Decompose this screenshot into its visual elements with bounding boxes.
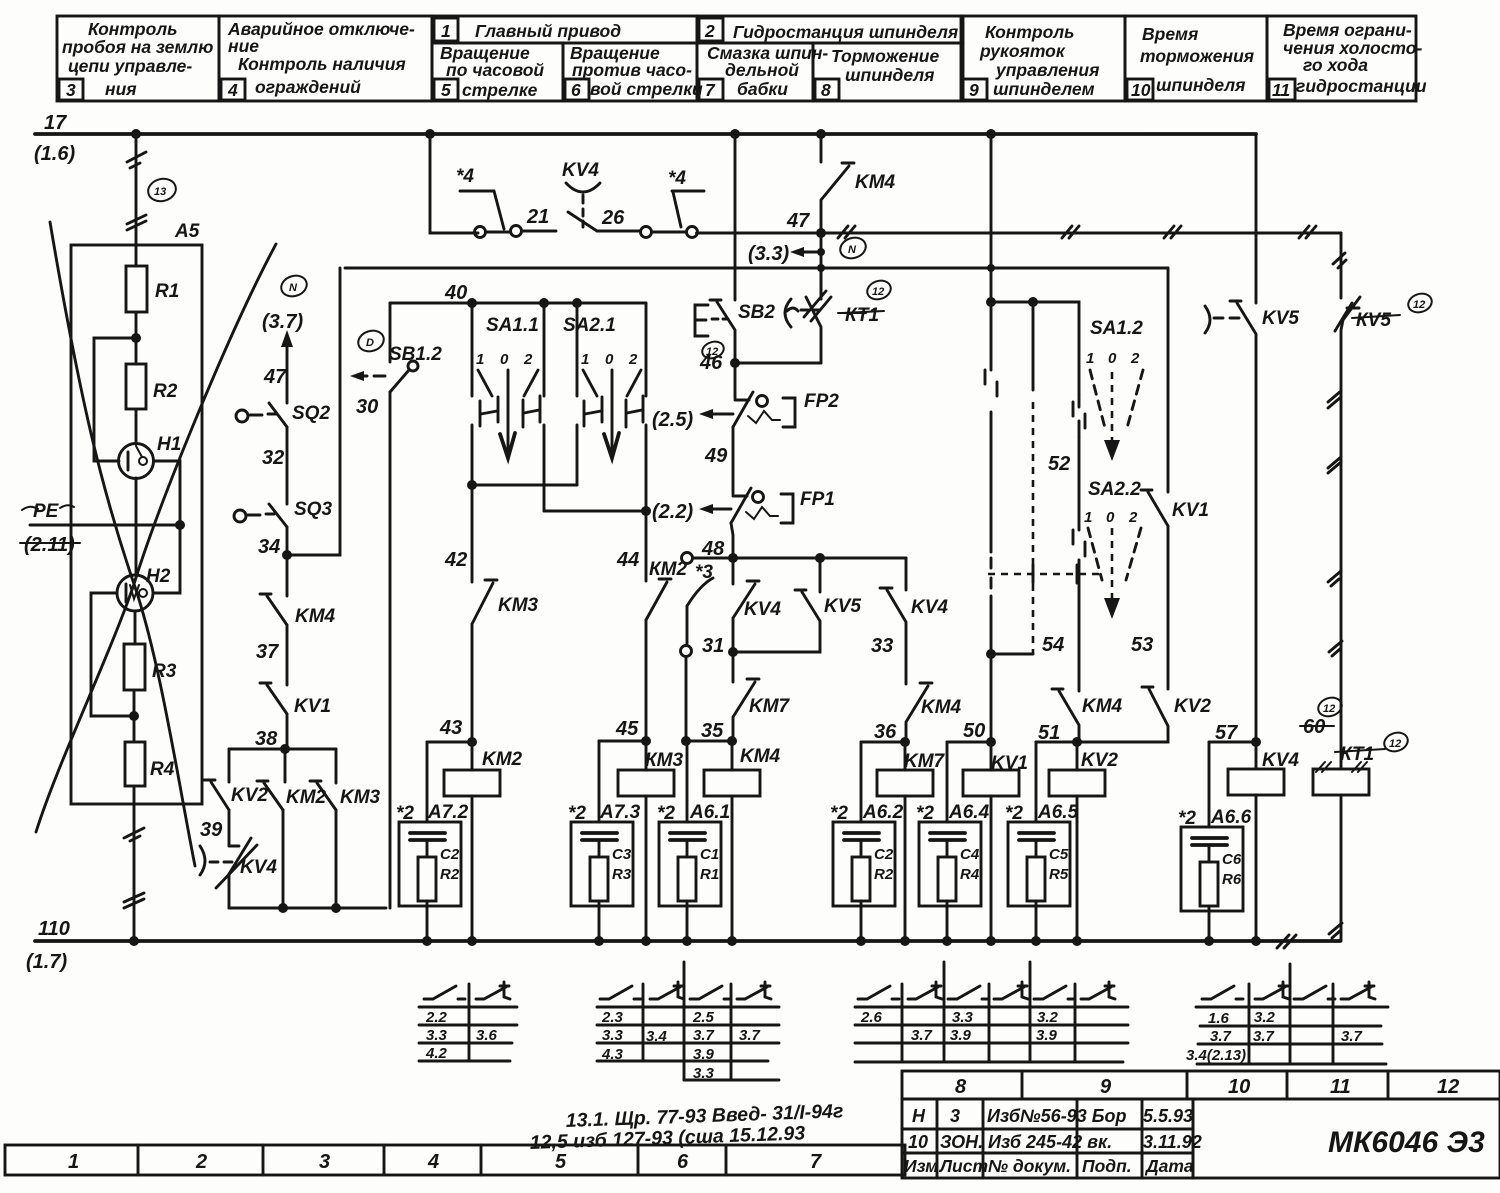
- wire R3 to node: [133, 690, 136, 742]
- circled mark N upper: [279, 272, 310, 299]
- node 36 junction: [900, 737, 910, 747]
- wire: PE / (2.11) horizontal: [30, 524, 180, 527]
- wire 49: [732, 427, 735, 494]
- svg-text:шпинделя: шпинделя: [1156, 75, 1245, 95]
- svg-text:30: 30: [356, 396, 378, 418]
- svg-text:R3: R3: [612, 866, 632, 883]
- svg-text:А6.5: А6.5: [1037, 802, 1079, 823]
- svg-text:C5: C5: [1049, 846, 1069, 863]
- svg-text:*4: *4: [456, 166, 474, 187]
- svg-text:3.7: 3.7: [911, 1027, 933, 1044]
- svg-text:2.3: 2.3: [601, 1009, 624, 1026]
- svg-text:Лист: Лист: [938, 1156, 988, 1176]
- svg-text:12: 12: [872, 286, 884, 298]
- relay coil KV2: [1049, 770, 1105, 796]
- svg-text:2.2: 2.2: [425, 1009, 448, 1026]
- svg-text:KV1: KV1: [1172, 500, 1209, 521]
- contact usage table 1 (KM2): [419, 982, 517, 1062]
- svg-text:3.7: 3.7: [1253, 1028, 1275, 1045]
- contact KM4 (from bus 17): [816, 129, 826, 139]
- svg-text:3.3: 3.3: [693, 1065, 715, 1082]
- wire: A5 branch from bus 17: [135, 134, 138, 266]
- svg-text:KM4: KM4: [921, 697, 962, 718]
- contact usage table 3 (KM7 / KV1 / KV2): [855, 962, 1128, 1062]
- svg-text:10: 10: [908, 1132, 928, 1152]
- header box 10: Время торможения шпинделя: [1125, 16, 1267, 101]
- svg-text:FP2: FP2: [804, 391, 839, 412]
- svg-text:R4: R4: [960, 866, 980, 883]
- break mark on bus 110: [1277, 935, 1296, 948]
- contact KM3 (branch 42): [472, 580, 497, 624]
- wire R1 to R2: [135, 312, 138, 364]
- svg-text:2: 2: [1128, 509, 1138, 526]
- svg-text:2: 2: [195, 1151, 207, 1173]
- svg-text:А6.6: А6.6: [1210, 807, 1252, 828]
- svg-text:5: 5: [555, 1151, 567, 1173]
- svg-text:9: 9: [1100, 1076, 1112, 1098]
- relay coil KM4: [704, 770, 760, 796]
- svg-text:12: 12: [1389, 738, 1401, 750]
- svg-text:R6: R6: [1222, 871, 1242, 888]
- svg-text:KV5: KV5: [1262, 308, 1299, 329]
- contact KV2 (39 loop): [204, 780, 229, 810]
- rail x=991 with contact break: [990, 302, 993, 654]
- contact KV5 (branch 48-31): [819, 558, 822, 592]
- svg-text:0: 0: [1108, 350, 1117, 367]
- wire to node 45: [645, 620, 648, 741]
- contact KV4 NC (39 loop) with actuator: [200, 838, 257, 888]
- svg-text:2: 2: [704, 21, 715, 41]
- thermal contact FP2: [733, 363, 795, 427]
- break marks on far right rail: [1328, 391, 1341, 408]
- svg-text:Изб№56-93 Бор: Изб№56-93 Бор: [987, 1106, 1126, 1126]
- node 31 junction: [728, 647, 738, 657]
- svg-text:KM7: KM7: [749, 696, 791, 717]
- node 48 junction: [728, 553, 738, 563]
- wire to node 38: [286, 714, 289, 749]
- svg-text:52: 52: [1048, 453, 1070, 475]
- switch section SA2.1: [563, 303, 646, 511]
- contact KV2 (branch 53-51): [1077, 687, 1168, 742]
- contact KV1 (right): [1141, 490, 1168, 526]
- svg-text:3.4(2.13): 3.4(2.13): [1186, 1047, 1246, 1064]
- header box 11: Время ограничения холостого хода гидростанции: [1267, 16, 1416, 101]
- node 47 junction: [816, 228, 826, 238]
- svg-text:C2: C2: [874, 846, 894, 863]
- svg-text:KM3: KM3: [498, 595, 539, 616]
- svg-text:9: 9: [969, 80, 979, 100]
- svg-text:Время ограни-: Время ограни-: [1283, 20, 1412, 40]
- circled mark above 46: [700, 339, 726, 361]
- wire R4 to bus 110: [133, 786, 136, 941]
- limit switch SQ3: [234, 504, 287, 555]
- svg-text:SQ2: SQ2: [292, 403, 330, 424]
- rail far right from line 47: [1340, 233, 1343, 298]
- wire: drop from bus to SB2: [734, 134, 737, 300]
- svg-text:34: 34: [258, 536, 280, 558]
- rail from sub-bus to KV1 contact: [1167, 268, 1170, 492]
- header function-zone table: [57, 16, 1427, 101]
- node 50 junction: [986, 737, 996, 747]
- node 51 junction: [1072, 737, 1082, 747]
- wire: SA1.1 right to SA2.1 right link: [544, 510, 646, 513]
- svg-text:SA2.2: SA2.2: [1088, 479, 1141, 500]
- wire H1 to H2: [135, 478, 138, 575]
- node: junction below R1: [131, 333, 141, 343]
- wire 42 down: [471, 485, 474, 582]
- svg-text:Подп.: Подп.: [1082, 1156, 1132, 1176]
- wire FP1 to node 48: [731, 523, 733, 558]
- svg-text:R5: R5: [1049, 866, 1069, 883]
- cross-out stroke 1 over A5: [50, 222, 195, 866]
- contact KM2 (branch 44): [646, 579, 671, 620]
- svg-text:N: N: [848, 244, 857, 256]
- contact KM3 (39 loop): [310, 781, 336, 810]
- rail x=1033 dashed lower: [1032, 302, 1035, 390]
- wire *3 to node 35: [686, 740, 732, 743]
- svg-text:KV4: KV4: [1262, 750, 1299, 771]
- svg-text:по часовой: по часовой: [446, 60, 544, 80]
- wire: 48 rail: [694, 557, 906, 560]
- relay coil KV1: [963, 770, 1019, 796]
- svg-text:ограждений: ограждений: [255, 77, 361, 97]
- svg-text:(2.2): (2.2): [652, 501, 693, 523]
- svg-text:1: 1: [68, 1151, 79, 1173]
- svg-text:бабки: бабки: [737, 79, 788, 99]
- svg-text:1: 1: [1084, 509, 1092, 526]
- contact KV4 (branch 33): [905, 558, 908, 590]
- contact KM4 (branch 33-36): [906, 683, 932, 742]
- rail 52 (x=1079) continues: [1078, 437, 1081, 691]
- circled mark above KT1: [865, 278, 893, 303]
- svg-text:35: 35: [701, 720, 724, 742]
- svg-text:42: 42: [444, 549, 467, 571]
- wire: node 34 to riser: [287, 268, 340, 555]
- svg-text:3: 3: [66, 80, 76, 100]
- bottom zone strip 1-7: [5, 1145, 905, 1175]
- svg-text:KV4: KV4: [911, 597, 948, 618]
- svg-text:R2: R2: [440, 866, 460, 883]
- svg-text:FP1: FP1: [800, 489, 835, 510]
- header box: 1 Главный привод: [432, 16, 697, 43]
- SB2 return arc symbol: [785, 299, 819, 327]
- contact KM2 (39 loop): [257, 781, 283, 810]
- wire: bus 17 right corner down: [1255, 134, 1258, 303]
- svg-text:PE: PE: [33, 501, 60, 522]
- cross-out stroke 2 over A5: [36, 244, 276, 832]
- svg-text:4: 4: [427, 1151, 439, 1173]
- svg-text:40: 40: [444, 282, 467, 304]
- svg-text:44: 44: [616, 549, 639, 571]
- svg-text:R1: R1: [155, 281, 179, 302]
- bus 17 (top supply line): [35, 132, 1256, 136]
- wire H2 to R3: [134, 611, 137, 644]
- revision table frame: [902, 1099, 1193, 1178]
- svg-text:C4: C4: [960, 846, 980, 863]
- wire node 54 to node 50: [990, 654, 993, 742]
- wire: left bypass of R2 to H1: [94, 338, 136, 461]
- break marks on line 47: [838, 226, 855, 238]
- resistor R4: [125, 742, 145, 786]
- long rail y=268 (sub-bus): [345, 267, 1168, 270]
- switch section SA2.2: [1084, 479, 1141, 619]
- svg-text:Гидростанция шпинделя: Гидростанция шпинделя: [733, 22, 958, 42]
- svg-text:12: 12: [1323, 703, 1335, 715]
- svg-text:3.7: 3.7: [1210, 1028, 1232, 1045]
- wire: H1 right to PE node: [154, 461, 181, 525]
- node: junction PE line / H lamps: [175, 520, 185, 530]
- wire 47 down across sub-bus: [820, 233, 823, 299]
- svg-text:47: 47: [786, 210, 810, 232]
- svg-text:стрелке: стрелке: [462, 80, 538, 100]
- wire: SA1.1 left to SA2.1 left link: [472, 484, 577, 487]
- svg-text:4: 4: [227, 80, 238, 100]
- contact KV4 (chain 21-26) with actuator: [522, 230, 556, 233]
- contact KV5 (right rail) with actuator: [1205, 301, 1256, 742]
- svg-text:SA1.1: SA1.1: [486, 315, 539, 336]
- node 34 junction: [282, 550, 292, 560]
- svg-text:31: 31: [702, 635, 724, 657]
- contact KV1 (SQ chain): [260, 683, 287, 714]
- svg-text:А6.2: А6.2: [862, 802, 904, 823]
- svg-text:KM4: KM4: [295, 606, 336, 627]
- svg-text:шпинделем: шпинделем: [993, 79, 1095, 99]
- wire: node 34 down: [286, 555, 289, 596]
- svg-text:*4: *4: [668, 168, 686, 189]
- wire 26 to second *4 link: [652, 231, 686, 234]
- svg-text:3.7: 3.7: [739, 1027, 761, 1044]
- svg-text:C3: C3: [612, 846, 632, 863]
- svg-text:вой стрелки: вой стрелки: [590, 79, 703, 99]
- contact KV5 crossed out (far right): [1335, 297, 1360, 769]
- svg-text:(3.7): (3.7): [262, 311, 303, 333]
- switch section SA1.2: [1086, 318, 1143, 461]
- svg-text:KV4: KV4: [744, 599, 781, 620]
- svg-text:3.3: 3.3: [426, 1027, 448, 1044]
- svg-text:21: 21: [526, 206, 549, 228]
- wire: drop from bus 17 at x=991: [990, 134, 993, 302]
- svg-text:32: 32: [262, 447, 284, 469]
- svg-text:2.5: 2.5: [692, 1009, 715, 1026]
- svg-text:КV5: КV5: [1356, 310, 1391, 331]
- circled mark D (SB1.2): [356, 327, 387, 354]
- svg-text:37: 37: [256, 641, 279, 663]
- svg-text:7: 7: [810, 1151, 822, 1173]
- svg-text:цепи управле-: цепи управле-: [68, 56, 192, 76]
- svg-text:7: 7: [705, 80, 716, 100]
- svg-text:8: 8: [955, 1076, 967, 1098]
- svg-text:А7.2: А7.2: [427, 802, 469, 823]
- svg-text:Изм: Изм: [904, 1156, 938, 1176]
- svg-text:дельной: дельной: [725, 60, 799, 80]
- svg-text:C2: C2: [440, 846, 460, 863]
- handwritten revision notes: [529, 1100, 843, 1154]
- svg-text:KM4: KM4: [1082, 696, 1123, 717]
- svg-text:1.6: 1.6: [1208, 1010, 1230, 1027]
- header box: Контроль пробоя: [57, 16, 219, 101]
- svg-text:A5: A5: [174, 221, 200, 242]
- svg-text:3.7: 3.7: [1341, 1028, 1363, 1045]
- svg-text:2: 2: [628, 351, 638, 368]
- svg-text:Изб 245-42 вк.: Изб 245-42 вк.: [988, 1132, 1112, 1152]
- svg-text:6: 6: [677, 1151, 689, 1173]
- wire: arrow up to sheet 3.7: [286, 336, 289, 403]
- circled mark right of KV5: [1406, 291, 1434, 316]
- svg-text:3.3: 3.3: [602, 1027, 624, 1044]
- contact usage table 2 (KM3 / KM4): [597, 962, 779, 1082]
- svg-text:KM4: KM4: [855, 172, 896, 193]
- svg-text:KM4: KM4: [740, 746, 781, 767]
- svg-text:KM2: KM2: [482, 749, 523, 770]
- svg-text:5: 5: [441, 80, 451, 100]
- svg-text:8: 8: [821, 80, 831, 100]
- svg-text:R2: R2: [874, 866, 894, 883]
- contact KM7 (branch 31-35): [732, 652, 735, 682]
- svg-text:KM3: KM3: [340, 787, 381, 808]
- svg-text:SA1.2: SA1.2: [1090, 318, 1143, 339]
- svg-text:го хода: го хода: [1303, 55, 1368, 75]
- node 38 junction: [280, 744, 290, 754]
- thermal contact FP1: [731, 488, 793, 523]
- contact usage table 4 (KV4): [1186, 964, 1388, 1064]
- lamp H1: [119, 444, 154, 479]
- circled mark N (3.3): [838, 234, 869, 261]
- actuator dashed line to SA2.2: [988, 573, 1100, 576]
- svg-text:А6.1: А6.1: [689, 802, 730, 823]
- svg-text:2: 2: [523, 351, 533, 368]
- svg-text:3.6: 3.6: [476, 1027, 498, 1044]
- circled mark above 60: [1316, 695, 1344, 720]
- svg-text:KV5: KV5: [824, 596, 861, 617]
- svg-text:SB1.2: SB1.2: [389, 344, 442, 365]
- svg-text:43: 43: [439, 717, 462, 739]
- svg-text:МК6046 Э3: МК6046 Э3: [1328, 1126, 1485, 1159]
- svg-text:39: 39: [200, 819, 223, 841]
- break mark above bus on KT1 rail: [1329, 923, 1342, 938]
- svg-text:КТ1: КТ1: [845, 305, 879, 326]
- wire SB1.2 down to 39 loop bottom: [389, 392, 392, 908]
- header sub-box 7: Смазка шпиндельной бабки: [697, 43, 813, 101]
- relay coil KM3: [618, 770, 674, 796]
- svg-text:KM7: KM7: [904, 751, 946, 772]
- svg-text:Время: Время: [1142, 24, 1198, 44]
- svg-text:КТ1: КТ1: [1340, 744, 1374, 765]
- lamp H2: [117, 575, 153, 611]
- svg-text:3: 3: [319, 1151, 330, 1173]
- svg-text:R4: R4: [150, 759, 175, 780]
- svg-text:(1.6): (1.6): [34, 143, 75, 165]
- wire: 40 rail: [390, 302, 646, 305]
- contact KV4 (branch 48-31): [732, 558, 735, 584]
- svg-text:1: 1: [1086, 350, 1094, 367]
- svg-text:А7.3: А7.3: [599, 802, 641, 823]
- svg-text:KV2: KV2: [231, 785, 268, 806]
- svg-text:1: 1: [581, 351, 589, 368]
- svg-text:Контроль наличия: Контроль наличия: [238, 54, 406, 74]
- svg-text:KV1: KV1: [991, 753, 1028, 774]
- circled mark right of KT1 coil: [1382, 730, 1410, 755]
- svg-text:3.2: 3.2: [1254, 1009, 1276, 1026]
- svg-text:3.9: 3.9: [950, 1027, 972, 1044]
- svg-text:ние: ние: [228, 36, 259, 56]
- svg-text:SA2.1: SA2.1: [563, 315, 616, 336]
- svg-text:против часо-: против часо-: [572, 60, 692, 80]
- svg-text:Главный привод: Главный привод: [475, 21, 621, 41]
- wire 44 down: [645, 511, 648, 581]
- svg-text:Торможение: Торможение: [831, 46, 939, 66]
- svg-text:SQ3: SQ3: [294, 499, 332, 520]
- svg-text:(2.5): (2.5): [652, 409, 693, 431]
- header box: Аварийное отключение: [219, 16, 432, 101]
- svg-text:11: 11: [1330, 1076, 1351, 1098]
- svg-text:А6.4: А6.4: [948, 802, 990, 823]
- svg-text:0: 0: [500, 351, 509, 368]
- svg-text:2.6: 2.6: [860, 1009, 883, 1026]
- svg-text:C6: C6: [1222, 851, 1242, 868]
- node 57 junction: [1251, 737, 1261, 747]
- wire: bottom rail of 39 loop: [229, 907, 386, 910]
- contact KM4 (branch 52-51): [1052, 689, 1079, 742]
- svg-text:0: 0: [1106, 509, 1115, 526]
- svg-text:36: 36: [874, 721, 897, 743]
- resistor R1: [126, 266, 147, 312]
- svg-text:шпинделя: шпинделя: [845, 65, 934, 85]
- svg-text:КМ3: КМ3: [645, 750, 684, 771]
- svg-text:рукояток: рукояток: [979, 41, 1066, 61]
- svg-text:38: 38: [255, 728, 278, 750]
- node 35 junction: [727, 736, 737, 746]
- svg-text:H2: H2: [146, 566, 171, 587]
- wire: drop from bus to 21-26 chain: [430, 134, 478, 233]
- svg-text:KV2: KV2: [1174, 696, 1211, 717]
- wire to node 43: [471, 624, 474, 742]
- svg-text:R1: R1: [700, 866, 719, 883]
- svg-text:D: D: [366, 337, 374, 349]
- wire 37: [286, 625, 289, 685]
- wire: top rail of 39 loop: [229, 748, 336, 751]
- svg-text:3.4: 3.4: [646, 1028, 668, 1045]
- pushbutton SB2 with mushroom actuator: [695, 300, 735, 363]
- wire KV2 to KV4 NC: [228, 810, 231, 846]
- svg-text:KV1: KV1: [294, 696, 331, 717]
- svg-text:12: 12: [1413, 299, 1425, 311]
- pushbutton SB1.2: [350, 303, 418, 392]
- svg-text:Дата: Дата: [1144, 1156, 1194, 1176]
- svg-text:ния: ния: [105, 79, 137, 99]
- wire node 54: [991, 653, 1033, 656]
- svg-text:пробоя на землю: пробоя на землю: [62, 37, 213, 57]
- relay coil KM2: [444, 770, 500, 796]
- svg-text:26: 26: [601, 207, 625, 229]
- svg-text:1: 1: [476, 351, 484, 368]
- svg-text:33: 33: [871, 635, 893, 657]
- svg-text:5.5.93: 5.5.93: [1143, 1106, 1193, 1126]
- svg-text:0: 0: [605, 351, 614, 368]
- svg-text:управления: управления: [995, 60, 1099, 80]
- svg-text:11: 11: [1272, 80, 1290, 100]
- svg-text:110: 110: [38, 918, 70, 940]
- svg-text:1: 1: [441, 21, 451, 41]
- wire KV4 NC to loop bottom: [228, 874, 231, 908]
- svg-text:гидростанции: гидростанции: [1296, 76, 1427, 96]
- svg-text:N: N: [289, 282, 298, 294]
- switch section SA1.1: [472, 303, 544, 511]
- contact KM4 (SQ chain): [260, 594, 287, 625]
- svg-text:53: 53: [1131, 634, 1153, 656]
- zone strip 8-12: [902, 1071, 1500, 1099]
- title block: [902, 1071, 1500, 1178]
- svg-text:KV4: KV4: [240, 857, 277, 878]
